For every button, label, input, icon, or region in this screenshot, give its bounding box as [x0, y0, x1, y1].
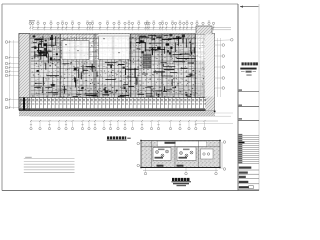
small plan bottom labels on edge: [157, 165, 164, 167]
small plan top label: [165, 142, 176, 144]
strong unit separation walls: [60, 34, 62, 98]
left hatch strip: [19, 34, 30, 111]
stair core dark blob: [143, 54, 151, 68]
small plan room 2: [177, 147, 196, 161]
page background: [0, 0, 260, 194]
main plan top axis bubbles row: [29, 22, 31, 24]
title block lower text rows: [239, 167, 252, 169]
fan symbols room2: [180, 152, 183, 155]
fan symbols room1: [156, 151, 159, 154]
dark shaft blobs: [38, 52, 41, 55]
darker clusters: [31, 34, 60, 62]
small plan dimension lines: [143, 170, 218, 172]
left axis vertical dim lines: [9, 40, 11, 109]
right axis vertical dim lines: [217, 38, 219, 97]
fan symbols room3: [203, 153, 205, 155]
top hatch band: [19, 34, 215, 40]
bottom comb row of storage cells: [19, 97, 205, 99]
right axis bubbles column: [222, 44, 225, 47]
small plan room labels: [155, 157, 164, 159]
dark bar left end of comb: [23, 98, 25, 111]
small plan top white band: [158, 141, 207, 146]
page border frame: [2, 3, 238, 5]
main plan caption: [107, 136, 109, 139]
small plan corner dots: [140, 140, 141, 141]
building outline: [19, 34, 215, 111]
main plan top axis dimension lines: [33, 26, 231, 28]
top right extra bubble: [231, 39, 234, 42]
small plan room 3: [201, 149, 214, 159]
bottom axis dimension lines: [30, 115, 231, 117]
title block left edge line: [237, 4, 239, 191]
hatch band below building: [19, 111, 215, 116]
darker lower room band: [31, 86, 205, 98]
title block stamp sub row: [241, 71, 245, 73]
title block mid lines: [239, 89, 242, 90]
top-right north arrow line: [240, 6, 259, 8]
lighter open patches: [62, 41, 89, 60]
small plan axis bubbles: [144, 172, 147, 175]
title block stamp characters: [242, 62, 244, 65]
extra mid-band clutter: [112, 86, 113, 89]
small plan outline: [141, 141, 220, 168]
thick building bottom line: [19, 109, 206, 111]
small plan room 1: [153, 148, 171, 161]
right hatch strip: [205, 34, 215, 111]
title block stamp heavy bar: [240, 68, 256, 70]
top axis small labels: [29, 20, 31, 23]
open patch internal lines: [62, 46, 89, 48]
top-right protrusion hatched: [196, 26, 212, 34]
bottom axis bubbles row: [30, 127, 32, 129]
small plan caption: [172, 178, 175, 181]
small plan inner walls: [141, 146, 220, 148]
left axis bubbles column: [5, 41, 8, 44]
tiny label above top-left bubbles: [29, 20, 35, 21]
interior room grid: [31, 33, 206, 35]
small plan bottom edge thick: [141, 167, 220, 169]
title block fine table rows: [238, 135, 259, 137]
thick wall segments: [35, 38, 41, 40]
faint notes table lines: [25, 157, 32, 158]
